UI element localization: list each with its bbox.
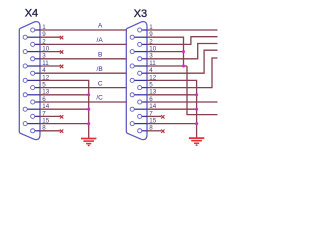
no-connect X mark X4 pin 11 bbox=[60, 65, 63, 68]
no-connect X mark X4 pin 7 bbox=[60, 115, 63, 118]
net label /A bbox=[97, 37, 104, 44]
wire X3 pin 13 to ground rail bbox=[147, 94, 197, 96]
X4 pin 13 bbox=[23, 89, 50, 97]
svg-text:X4: X4 bbox=[25, 8, 38, 20]
wire net C from X4 pin 5 to X3 bbox=[40, 87, 127, 89]
junction X4 ground rail pin 15 bbox=[87, 122, 90, 125]
svg-text:X3: X3 bbox=[134, 8, 147, 20]
wire net /B from X3 pin 4 up to exit bbox=[147, 50, 218, 73]
no-connect X mark X3 pin 7 bbox=[161, 115, 164, 118]
wire X4 pin 12 to ground rail bbox=[40, 80, 89, 138]
X3 pin 7 bbox=[138, 110, 154, 118]
wire X3 pin 14 to ground rail bbox=[147, 108, 197, 110]
wire stub X4 pin 10 bbox=[40, 51, 60, 53]
X4 pin 8 bbox=[31, 125, 47, 133]
wire X3 pin 15 to ground rail bbox=[147, 123, 197, 125]
X3 pin 8 bbox=[138, 125, 154, 133]
X4 pin 10 bbox=[23, 46, 50, 54]
wire net C from X3 pin 5 up to exit bbox=[147, 58, 218, 88]
svg-text:B: B bbox=[98, 52, 102, 59]
X4 pin 12 bbox=[23, 74, 50, 82]
svg-text:/C: /C bbox=[96, 95, 103, 102]
X4 pin 4 bbox=[31, 67, 47, 75]
ground symbol X3 bbox=[189, 138, 204, 145]
ground symbol X4 bbox=[81, 139, 96, 146]
X4 pin 9 bbox=[23, 31, 46, 39]
wire stub X3 pin 7 bbox=[147, 115, 161, 117]
wire net A from X4 pin 1 to X3 bbox=[40, 29, 127, 31]
junction X3 pins 9-11 bbox=[182, 65, 185, 68]
junction X3 ground rail pin 15 bbox=[195, 122, 198, 125]
junction X4 ground rail pin 13 bbox=[87, 93, 90, 96]
X4 pin 1 bbox=[31, 24, 47, 32]
wire net /C from X3 pin 6 to right bbox=[147, 101, 218, 103]
wire X3 pin 11 to descender bbox=[147, 65, 187, 67]
wire net /A from X3 pin 2 up to exit bbox=[147, 37, 218, 45]
X4 pin 15 bbox=[23, 118, 50, 126]
svg-text:A: A bbox=[98, 23, 103, 30]
wire net B from X4 pin 3 to X3 bbox=[40, 58, 127, 60]
X3 pin 11 bbox=[130, 60, 156, 68]
X3 pin 5 bbox=[138, 82, 154, 90]
wire stub X3 pin 8 bbox=[147, 130, 161, 132]
X4 pin 14 bbox=[23, 103, 50, 111]
X4 pin 5 bbox=[31, 82, 47, 90]
wire X4 pin 14 to ground rail bbox=[40, 108, 89, 110]
X4 pin 6 bbox=[31, 96, 47, 104]
wire net /C from X4 pin 6 to X3 bbox=[40, 101, 127, 103]
no-connect X mark X4 pin 10 bbox=[60, 50, 63, 53]
wire stub X4 pin 8 bbox=[40, 130, 60, 132]
X3 pin 9 bbox=[130, 31, 153, 39]
wire net A from X3 pin 1 to right bbox=[147, 29, 218, 31]
X4 pin 2 bbox=[31, 38, 47, 46]
X4 pin 3 bbox=[31, 53, 47, 61]
wire X3 pin 12 to ground rail bbox=[147, 80, 197, 137]
X3 pin 6 bbox=[138, 96, 154, 104]
svg-text:/A: /A bbox=[97, 37, 104, 44]
X3 pin 1 bbox=[138, 24, 154, 32]
wire net /A from X4 pin 2 to X3 bbox=[40, 43, 127, 45]
X3 pin 2 bbox=[138, 38, 154, 46]
wire stub X4 pin 11 bbox=[40, 65, 60, 67]
wire X3 pin 9 down to pins 10/11 bbox=[147, 37, 184, 66]
X3 pin 13 bbox=[130, 89, 157, 97]
no-connect X mark X3 pin 8 bbox=[161, 130, 164, 133]
wire stub X4 pin 9 bbox=[40, 36, 60, 38]
net label C bbox=[98, 80, 103, 87]
svg-text:C: C bbox=[98, 80, 103, 87]
X3 pin 12 bbox=[130, 74, 157, 82]
wire X4 pin 15 to ground rail bbox=[40, 123, 89, 125]
net label A bbox=[98, 23, 103, 30]
X4 pin 11 bbox=[23, 60, 49, 68]
no-connect X mark X4 pin 8 bbox=[60, 130, 63, 133]
connector X4 body (DB15) bbox=[19, 22, 40, 140]
wire pins 9/10/11 net descender to exit row bbox=[187, 66, 218, 115]
connector X3 body (DB15) bbox=[126, 22, 147, 140]
wire X4 pin 13 to ground rail bbox=[40, 94, 89, 96]
net label /C bbox=[96, 95, 103, 102]
connector X3 reference label bbox=[134, 8, 147, 20]
junction X3 pins 9-10 bbox=[182, 50, 185, 53]
X3 pin 14 bbox=[130, 103, 157, 111]
junction X3 ground rail pin 14 bbox=[195, 108, 198, 111]
X4 pin 7 bbox=[31, 110, 47, 118]
X3 pin 10 bbox=[130, 46, 157, 54]
net label /B bbox=[97, 66, 103, 73]
svg-text:/B: /B bbox=[97, 66, 103, 73]
wire X3 pin 10 bbox=[147, 51, 184, 53]
junction X4 ground rail pin 14 bbox=[87, 108, 90, 111]
wire stub X4 pin 7 bbox=[40, 115, 60, 117]
X3 pin 15 bbox=[130, 118, 157, 126]
net label B bbox=[98, 52, 102, 59]
connector X4 reference label bbox=[25, 8, 38, 20]
wire net /B from X4 pin 4 to X3 bbox=[40, 72, 127, 74]
wire net B from X3 pin 3 up to exit bbox=[147, 44, 218, 59]
no-connect X mark X4 pin 9 bbox=[60, 36, 63, 39]
X3 pin 3 bbox=[138, 53, 154, 61]
junction X3 ground rail pin 13 bbox=[195, 93, 198, 96]
X3 pin 4 bbox=[138, 67, 154, 75]
